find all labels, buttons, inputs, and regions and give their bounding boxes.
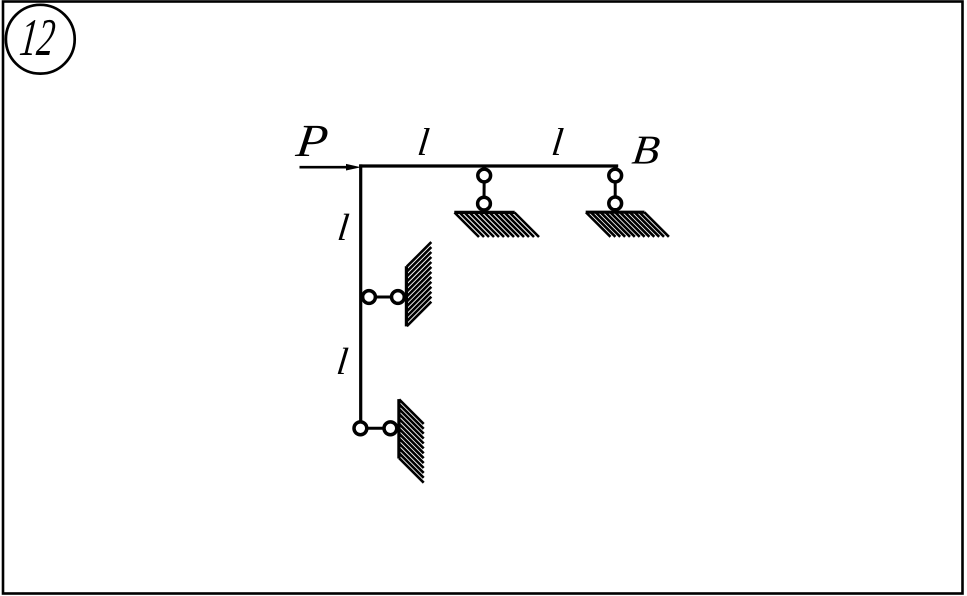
inner pin of middle support: [363, 291, 376, 304]
upper pin of support C: [478, 169, 491, 182]
ground hatching under support C: [455, 213, 540, 238]
ground line under support B: [586, 211, 645, 214]
wall hatching at bottom support: [399, 399, 424, 482]
vertical beam: [359, 164, 362, 420]
outer pin of middle support: [392, 291, 405, 304]
horizontal beam: [359, 164, 618, 167]
force P arrowhead: [346, 164, 361, 171]
link rod of support C: [483, 176, 486, 204]
svg-text:B: B: [630, 127, 663, 173]
svg-text:P: P: [293, 115, 331, 166]
wall hatching at middle support: [407, 242, 432, 326]
svg-text:12: 12: [17, 8, 58, 67]
link rod of middle support: [369, 296, 398, 299]
problem number badge circle: [6, 5, 75, 74]
outer pin of bottom support: [384, 422, 397, 435]
inner pin of bottom support: [354, 422, 367, 435]
ground hatching under support B: [586, 212, 669, 237]
link rod of bottom support: [360, 427, 390, 430]
problem number 12: [17, 8, 58, 67]
upper pin of support B: [609, 169, 622, 182]
lower pin of support B: [609, 197, 622, 210]
lower pin of support C: [478, 197, 491, 210]
link rod of support B: [614, 176, 617, 204]
force P arrow shaft: [300, 166, 349, 169]
ground line under support C: [454, 211, 514, 214]
wall line at middle support: [405, 266, 408, 326]
wall line at bottom support: [397, 399, 400, 458]
